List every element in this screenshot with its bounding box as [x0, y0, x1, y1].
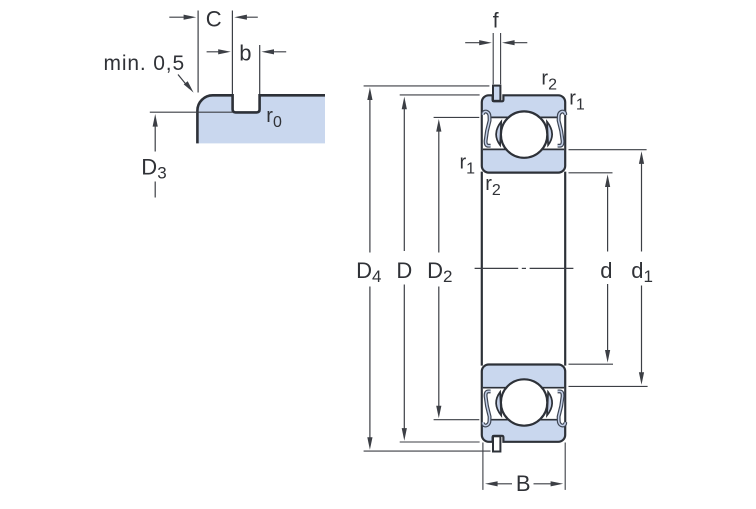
svg-text:D2: D2	[427, 258, 452, 286]
svg-text:f: f	[493, 9, 499, 32]
shield right	[558, 112, 566, 146]
ball	[501, 111, 547, 157]
svg-text:C: C	[206, 7, 222, 32]
shield left	[483, 112, 491, 146]
svg-text:b: b	[239, 41, 251, 66]
dimension D2	[436, 119, 441, 132]
svg-text:r1: r1	[460, 152, 476, 178]
cage crescent right	[547, 122, 552, 145]
svg-text:D4: D4	[356, 258, 381, 286]
bearing upper cross-section	[482, 95, 565, 172]
svg-text:min. 0,5: min. 0,5	[104, 52, 186, 75]
svg-text:d1: d1	[631, 258, 653, 286]
dimension b	[259, 45, 261, 94]
cage crescent left	[496, 122, 501, 145]
svg-text:B: B	[516, 471, 531, 496]
dimension D3 (half)	[153, 114, 158, 127]
gap between rings	[483, 111, 564, 149]
groove detail cross-section (left figure)	[197, 95, 325, 143]
outer+inner ring section body	[482, 95, 565, 172]
dimension d	[605, 174, 610, 187]
dimension D	[402, 97, 407, 110]
svg-text:d: d	[600, 258, 612, 283]
bore silhouette edges	[481, 172, 483, 366]
dimension B	[482, 443, 484, 490]
dimension d1	[639, 151, 644, 164]
dimension f	[492, 33, 494, 84]
svg-text:D3: D3	[141, 154, 166, 182]
dimension C	[197, 11, 199, 93]
dimension D4	[367, 87, 372, 100]
svg-text:D: D	[396, 258, 412, 283]
svg-text:r2: r2	[541, 67, 557, 93]
snap ring bottom	[493, 436, 500, 451]
svg-text:r2: r2	[485, 173, 501, 199]
snap ring top	[493, 86, 500, 101]
svg-text:r1: r1	[569, 87, 585, 113]
bearing lower cross-section (mirror)	[482, 364, 565, 441]
D3 reference line	[150, 111, 233, 113]
centerline	[475, 267, 574, 269]
